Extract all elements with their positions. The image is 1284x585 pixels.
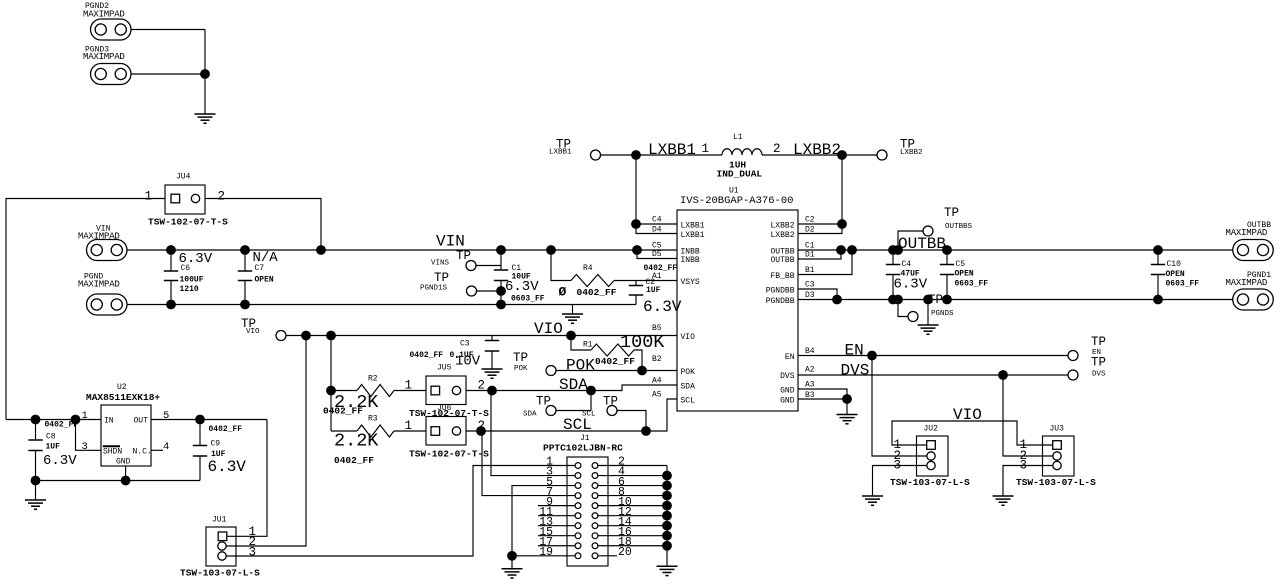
resistor R3 [331,415,426,467]
svg-text:EN: EN [785,353,795,362]
junction PGNDBB/C4 [888,295,898,305]
svg-text:PGNDS: PGNDS [931,310,954,318]
svg-text:GND: GND [780,396,795,405]
svg-text:VSYS: VSYS [681,278,700,287]
JU6 pin number 2 [478,419,486,433]
junction C1/TP PGND1S [496,286,506,296]
resistor R1 [571,332,665,371]
svg-text:C9: C9 [211,440,221,449]
JU1 pin number 2 [249,535,257,549]
junction U1 C4 pin [631,219,641,229]
JU6 pin number 1 [405,419,413,433]
svg-text:LXBB1: LXBB1 [648,141,696,159]
test point TP SDA [523,395,556,419]
IC U1 IVS-20BGAP-A376-00 [677,187,798,412]
wire TP SCL to SCL [617,411,646,432]
svg-text:0402_FF: 0402_FF [323,406,363,417]
svg-text:1210: 1210 [180,285,199,294]
label LXBB2 [793,141,841,159]
svg-text:6.3V: 6.3V [208,458,247,476]
wire ground node down [204,30,206,115]
capacitor C9 [193,420,247,481]
label DVS [841,362,870,380]
svg-text:1UF: 1UF [646,286,661,295]
svg-text:SDA: SDA [681,382,696,391]
wire VIO net [286,335,677,337]
wire U1 pin D2 jog [798,224,842,234]
label LXBB1 [648,141,696,159]
svg-text:1: 1 [702,142,710,156]
svg-text:R4: R4 [583,264,593,273]
jumper JU4 [165,173,205,215]
wire J1 pin13 stub [538,525,575,527]
svg-text:OUTBB: OUTBB [770,247,794,256]
wire J1 left ground stub [511,556,513,569]
junction U1 GND [842,394,852,404]
L1 pin number 2 [773,142,781,156]
svg-text:A4: A4 [652,377,662,386]
wire J1 pin5 to ground [512,486,575,556]
junction LXBB2 [837,150,847,160]
junction LXBB1 [631,150,641,160]
svg-text:IND_DUAL: IND_DUAL [717,169,763,180]
wire JU4 pin2 down to VIN [205,199,321,251]
test point TP PGNDS [908,293,954,322]
wire JU4 pin1 to left rail [6,199,165,420]
svg-text:MAXIMPAD: MAXIMPAD [1226,278,1268,288]
junction OUTBB/C4 [888,245,898,255]
wire PGND2 to ground node [131,29,205,31]
junction VIN/D5 pin [632,245,642,255]
test point TP EN [1068,335,1106,361]
svg-text:C5: C5 [956,260,966,269]
svg-text:LXBB1: LXBB1 [681,231,705,240]
resistor R2 [323,375,426,417]
J1 pin numbers left [539,456,553,559]
label VIO jumpers [953,406,982,424]
svg-text:L1: L1 [733,133,743,142]
wire PGND net [127,304,636,306]
svg-text:MAXIMPAD: MAXIMPAD [83,52,125,62]
svg-text:PGNDBB: PGNDBB [766,297,795,306]
svg-text:2: 2 [773,142,781,156]
svg-text:DVS: DVS [780,372,795,381]
wire VIO to JU1 pin2 [226,336,306,547]
junction VIN/C7 [240,245,250,255]
ground J1 right [657,566,678,575]
svg-text:JU5: JU5 [437,364,452,373]
wire SDA riser to TP [590,391,592,411]
svg-text:POK: POK [566,357,595,375]
svg-text:R1: R1 [583,341,593,350]
wire POK net [556,370,677,372]
junctions J1 ground rail [662,471,672,551]
JU3 pin number 1 [1020,438,1028,452]
svg-text:C1: C1 [805,242,815,251]
pad PGND1 (MAXIMPAD) [1226,271,1274,310]
JU2 pin number 2 [894,449,902,463]
svg-text:JU3: JU3 [1050,425,1065,434]
jumper JU1 [206,516,236,567]
JU1 value TSW-103-07-L-S [180,568,260,579]
svg-text:LXBB2: LXBB2 [793,141,841,159]
wire DVS to JU3 pin2 [1003,375,1053,456]
wire U1 pin D4 jog [636,224,677,234]
capacitor C4 [886,250,928,300]
svg-text:GND: GND [116,458,131,467]
JU4 pin number 1 [145,190,153,204]
JU3 value TSW-103-07-L-S [1016,477,1096,488]
junction VIN/C1 [496,245,506,255]
svg-text:100UF: 100UF [180,276,204,285]
svg-text:LXBB2: LXBB2 [770,221,794,230]
svg-text:VINS: VINS [431,260,450,268]
junction PGND/C7 [240,300,250,310]
svg-text:OUT: OUT [134,417,149,426]
svg-text:LXBB2: LXBB2 [770,231,794,240]
JU1 pin number 1 [249,525,257,539]
wire U1 pin FB_BB jog [798,250,852,275]
wire LXBB2 to U1 C2/D2 [841,155,843,224]
svg-text:SCL: SCL [582,411,596,419]
capacitor C2 [629,264,682,316]
U2 pin number 3 [82,441,88,453]
U2 pin number 5 [163,410,169,422]
svg-text:VIO: VIO [246,328,260,336]
wire PGNDBB ground stub [927,300,929,326]
svg-text:VIO: VIO [534,320,563,338]
JU2 pin number 3 [894,459,902,473]
svg-text:6.3V: 6.3V [643,298,682,316]
wire LXBB1 net [601,154,723,156]
capacitor C10 [1151,250,1200,300]
svg-text:0402_FF: 0402_FF [595,356,635,367]
svg-text:R2: R2 [368,375,378,384]
JU5 pin number 2 [478,379,486,393]
svg-text:OPEN: OPEN [255,276,274,285]
jumper JU6 [426,404,466,445]
svg-text:TSW-103-07-L-S: TSW-103-07-L-S [180,568,260,579]
svg-text:2: 2 [218,190,226,204]
wire TP PGNDS to PGNDBB [898,300,908,317]
svg-text:B1: B1 [805,266,815,275]
svg-text:10V: 10V [455,354,481,370]
pad PGND3 (MAXIMPAD) [83,46,131,85]
wire U1 pin D5 jog [637,250,677,259]
junction OUTBB/C5 [942,245,952,255]
svg-text:IVS-20BGAP-A376-00: IVS-20BGAP-A376-00 [680,195,793,207]
junction PGNDBB/C5 [942,295,952,305]
svg-text:LXBB1: LXBB1 [681,221,705,230]
svg-text:JU4: JU4 [176,173,191,182]
svg-text:N.C.: N.C. [133,448,152,457]
junction PGNDBB/C3 pin [832,295,842,305]
junction PGNDBB/C10 [1153,295,1163,305]
pad PGND2 (MAXIMPAD) [83,2,131,40]
svg-text:MAXIMPAD: MAXIMPAD [83,10,125,20]
svg-text:LXBB2: LXBB2 [900,149,923,157]
wire J1 pin15 stub [538,535,575,537]
label VIO [534,320,563,338]
svg-text:C2: C2 [805,216,815,225]
svg-text:20: 20 [618,546,632,559]
JU3 pin number 3 [1020,459,1028,473]
junction OUTBB/TP [893,245,903,255]
svg-text:PGND1S: PGND1S [420,285,448,293]
svg-text:TP: TP [434,271,449,285]
wire J1 even pins to ground rail [598,466,667,567]
wire TP SDA to SDA [556,410,591,412]
svg-text:JU1: JU1 [212,516,227,525]
svg-text:C8: C8 [46,433,56,442]
junction U2 OUT/C9 [195,415,205,425]
svg-text:FB_BB: FB_BB [770,272,794,281]
JU4 value TSW-102-07-T-S [148,217,228,228]
svg-text:C6: C6 [181,264,191,273]
wire J1 pin17 stub [538,545,575,547]
test point TP VINS [431,249,476,271]
pad PGND (MAXIMPAD) [78,273,127,316]
junction DVS/JU3 [998,370,1008,380]
svg-text:C10: C10 [1167,260,1182,269]
ground C3 [482,369,503,378]
wire EN net [798,355,1068,357]
wire SCL net [466,399,677,431]
U1 pin labels right [805,216,815,400]
junction VIO/R2R3 branch [326,331,336,341]
svg-text:OPEN: OPEN [955,270,974,279]
svg-text:1: 1 [82,410,88,422]
svg-text:3: 3 [82,441,88,453]
JU4 pin number 2 [218,190,226,204]
wire PGNDBB net [798,299,1233,301]
svg-text:C3: C3 [805,281,815,290]
svg-text:D5: D5 [652,250,662,259]
svg-text:C7: C7 [255,264,265,273]
svg-text:TP: TP [513,351,528,365]
svg-text:DVS: DVS [841,362,870,380]
junction PGNDBB/TP [893,295,903,305]
junction VIN/C6 [166,245,176,255]
test point TP LXBB1 [549,138,601,161]
svg-text:R3: R3 [368,415,378,424]
svg-text:EN: EN [845,342,864,360]
svg-text:0603_FF: 0603_FF [1166,280,1200,289]
test point TP POK [513,351,556,376]
capacitor C5 [940,250,989,300]
wire TP OUTBBS to OUTBB [898,231,923,250]
svg-text:TP: TP [1091,335,1106,349]
svg-text:MAXIMPAD: MAXIMPAD [1226,228,1268,238]
svg-text:A5: A5 [652,391,662,400]
junction PGND2/PGND3 node [200,69,210,79]
wire SHDN jog [76,420,102,451]
svg-text:C3: C3 [460,340,470,349]
svg-text:0402_FF: 0402_FF [45,421,79,430]
svg-text:1: 1 [405,419,413,433]
label SDA [559,376,588,394]
svg-text:SDA: SDA [559,376,588,394]
JU6 value TSW-102-07-T-S [409,449,489,460]
svg-text:A1: A1 [652,272,662,281]
junction OUTBB/D1 [836,245,846,255]
svg-text:GND: GND [780,386,795,395]
wire J1 pin3 to SDA [491,391,575,476]
jumper JU3 [1043,425,1075,477]
svg-text:VIN: VIN [436,233,465,251]
wire J1 pin9 stub [538,505,575,507]
wire VIN net [127,249,677,251]
junction SCL/TP branch [641,426,651,436]
junction VIN/R4 [546,245,556,255]
ground U2 [25,500,46,509]
inductor L1 [717,133,763,180]
svg-text:TP: TP [1091,356,1106,370]
wire TP VINS to C1 [476,265,501,267]
svg-text:SDA: SDA [523,411,537,419]
U2 pin number 4 [163,441,169,453]
ground PGND rail [562,314,583,323]
svg-text:MAX8511EXK18+: MAX8511EXK18+ [86,392,160,403]
resistor R4 [551,250,677,300]
svg-text:TSW-102-07-T-S: TSW-102-07-T-S [148,217,228,228]
wire DVS net [798,374,1068,376]
svg-text:DVS: DVS [1092,371,1106,379]
wire U2 GND down [125,466,127,481]
svg-text:B2: B2 [652,355,662,364]
svg-text:C5: C5 [652,242,662,251]
svg-text:TP: TP [928,293,943,307]
wire U2 NC stub [151,449,163,451]
IC U2 MAX8511EXK18+ [86,383,160,467]
junction JU4/VIN [316,245,326,255]
svg-text:TSW-103-07-L-S: TSW-103-07-L-S [1016,477,1096,488]
L1 pin number 1 [702,142,710,156]
svg-text:TP: TP [944,206,959,220]
svg-text:C4: C4 [652,216,662,225]
ground JU3 [993,496,1014,505]
junction OUTBB/FB_BB [847,245,857,255]
junction J1 ground left [507,551,517,561]
svg-text:5: 5 [163,410,169,422]
svg-text:D4: D4 [652,225,662,234]
svg-text:SCL: SCL [681,396,696,405]
JU2 pin number 1 [894,438,902,452]
test point TP LXBB2 [877,138,923,161]
svg-text:VIO: VIO [953,406,982,424]
wire LXBB1 to U1 C4/D4 [635,155,637,224]
svg-text:3: 3 [249,545,257,559]
wire C8 ground stub [35,481,37,501]
wire U1 GND pins [798,389,847,415]
junction U1 C2 pin [837,219,847,229]
svg-text:PPTC102LJBN-RC: PPTC102LJBN-RC [543,443,623,454]
svg-text:0402_FF: 0402_FF [209,425,243,434]
ground PGNDBB [918,325,939,334]
svg-text:6.3V: 6.3V [505,279,539,295]
svg-text:2.2K: 2.2K [334,431,379,452]
svg-text:SHDN: SHDN [103,448,122,457]
JU1 pin number 3 [249,545,257,559]
junction PGNDBB/gnd [923,295,933,305]
svg-text:C4: C4 [902,260,912,269]
wire J1 pin11 stub [538,515,575,517]
JU2 value TSW-103-07-L-S [890,477,970,488]
test point TP SCL [582,395,618,419]
wire VIO to R2/R3 [330,336,332,432]
svg-text:OUTBBS: OUTBBS [945,223,973,231]
svg-text:OUTBB: OUTBB [770,256,794,265]
svg-text:POK: POK [681,368,696,377]
svg-text:MAXIMPAD: MAXIMPAD [78,280,120,290]
wire SDA net [466,385,677,391]
J1 pin numbers right [618,456,632,559]
svg-text:D2: D2 [805,225,815,234]
JU5 value TSW-102-07-T-S [409,408,489,419]
label EN [845,342,864,360]
svg-text:1: 1 [405,379,413,393]
svg-text:OUTBB: OUTBB [898,235,946,253]
svg-text:0603_FF: 0603_FF [955,280,989,289]
wire J1 pin19 to ground [512,555,575,557]
wire U1 pin C3 jog [798,289,837,300]
U2 pin number 1 [82,410,88,422]
wire OUTBB net [798,249,1233,251]
wire U1 pin C2 [798,223,842,225]
junction R2 [326,386,336,396]
label SCL [563,416,592,434]
svg-text:JU6: JU6 [437,404,452,413]
jumper JU2 [917,425,949,477]
ground J1 left [502,569,523,578]
svg-text:1UF: 1UF [46,443,61,452]
svg-text:JU2: JU2 [924,425,939,434]
test point TP PGND1S [420,271,477,296]
svg-text:SCL: SCL [563,416,592,434]
label VIN [436,233,465,251]
svg-text:TSW-103-07-L-S: TSW-103-07-L-S [890,477,970,488]
capacitor C8 [28,420,78,481]
connector J1 PPTC102LJBN-RC [543,434,623,566]
svg-text:6.3V: 6.3V [43,453,77,469]
wire U2 OUT [151,419,267,421]
test point TP VIO [241,317,286,341]
ground JU2 [862,496,883,505]
junction SCL/J1 branch [476,426,486,436]
junction VIO/R1 branch [566,331,576,341]
wire U2 ground rail [36,480,201,482]
wire PGND ground stub [572,305,574,315]
svg-text:1: 1 [145,190,153,204]
label OUTBB [898,235,946,253]
svg-text:A3: A3 [805,381,815,390]
pad OUTBB (MAXIMPAD) [1226,221,1274,261]
svg-text:4: 4 [163,441,169,453]
svg-text:INBB: INBB [681,256,700,265]
wire EN to JU2 pin2 [872,356,927,457]
svg-text:LXBB1: LXBB1 [549,149,572,157]
capacitor C1 [494,250,545,305]
svg-text:0402_FF: 0402_FF [410,351,444,360]
ground U1 GND [837,415,858,424]
jumper JU5 [426,364,466,405]
svg-text:19: 19 [539,546,553,559]
U1 pin names right [766,221,795,405]
U1 pin labels left [652,216,662,400]
svg-text:IN: IN [104,417,114,426]
capacitor C6 [164,250,213,305]
junction OUTBB/C10 [1153,245,1163,255]
